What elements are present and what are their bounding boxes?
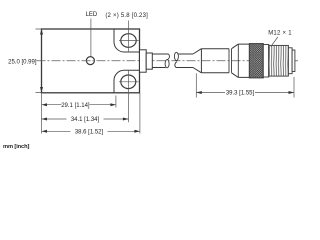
svg-text:25.0 [0.99]: 25.0 [0.99] xyxy=(8,59,37,65)
svg-text:(2 ×) 5.8 [0.23]: (2 ×) 5.8 [0.23] xyxy=(105,13,148,19)
svg-text:LED: LED xyxy=(86,12,98,18)
svg-text:29.1 [1.14]: 29.1 [1.14] xyxy=(61,103,90,109)
svg-text:M12 × 1: M12 × 1 xyxy=(268,31,292,37)
svg-text:mm [inch]: mm [inch] xyxy=(3,144,29,150)
svg-text:38.6 [1.52]: 38.6 [1.52] xyxy=(75,129,104,135)
svg-text:34.1 [1.34]: 34.1 [1.34] xyxy=(71,117,100,123)
svg-text:39.3 [1.55]: 39.3 [1.55] xyxy=(226,91,255,97)
